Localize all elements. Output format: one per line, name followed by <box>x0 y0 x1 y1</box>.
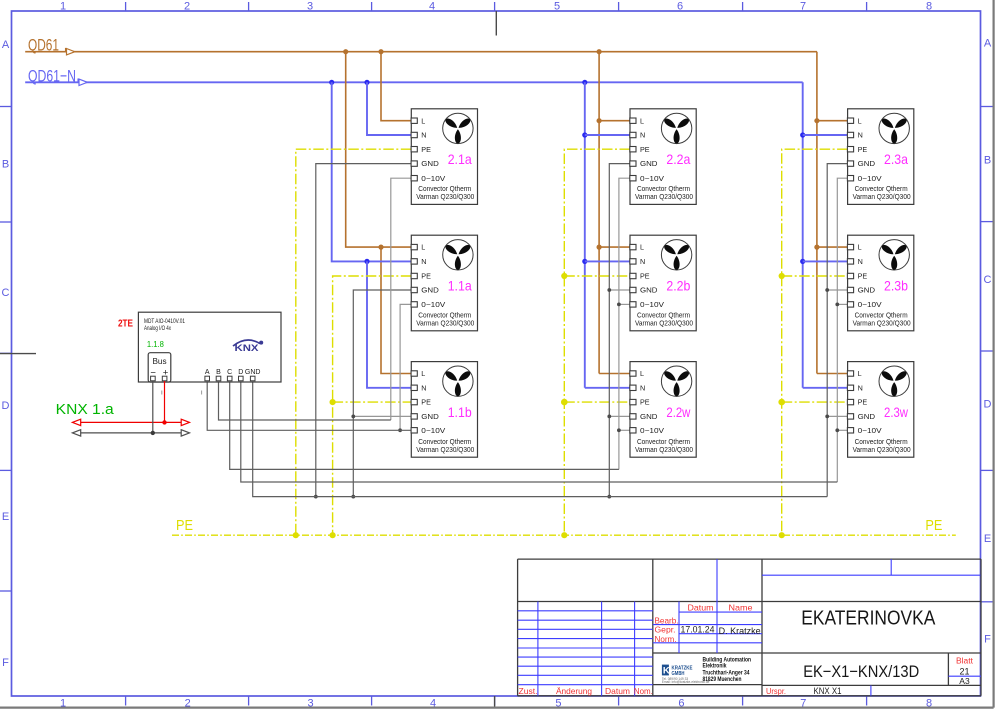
svg-text:GND: GND <box>245 369 261 376</box>
wire L riser column 2 (QD61 drop) <box>597 49 631 373</box>
svg-text:PE: PE <box>858 398 868 407</box>
svg-text:2.2b: 2.2b <box>666 278 690 294</box>
arrow QD61 <box>66 48 75 55</box>
svg-text:Varman Q230/Q300: Varman Q230/Q300 <box>416 447 474 454</box>
svg-text:2.3a: 2.3a <box>884 151 908 167</box>
wire N feed 1.1a (QD61-N drop) <box>329 80 411 262</box>
svg-text:Nom.: Nom. <box>634 686 653 696</box>
svg-text:Bus: Bus <box>152 357 166 366</box>
svg-text:PE: PE <box>421 272 431 281</box>
svg-text:Convector Qtherm: Convector Qtherm <box>637 439 690 446</box>
svg-text:Convector Qtherm: Convector Qtherm <box>855 313 908 320</box>
svg-text:C: C <box>2 287 10 299</box>
wire 0-10V 2.1a (output B) <box>391 178 412 420</box>
svg-text:PE: PE <box>858 272 868 281</box>
svg-text:N: N <box>640 383 645 392</box>
svg-text:Convector Qtherm: Convector Qtherm <box>855 186 908 193</box>
svg-text:E: E <box>984 533 991 545</box>
svg-text:N: N <box>640 131 645 140</box>
svg-text:GND: GND <box>640 286 658 295</box>
svg-text:L: L <box>858 116 862 125</box>
wire GND 2.1a riser <box>314 164 411 499</box>
svg-text:L: L <box>858 243 862 252</box>
svg-text:D: D <box>984 399 992 411</box>
svg-text:D: D <box>238 369 243 376</box>
svg-text:0−10V: 0−10V <box>858 174 882 183</box>
pins A B C D GND <box>205 369 261 381</box>
svg-text:L: L <box>858 369 862 378</box>
svg-text:A: A <box>205 369 210 376</box>
svg-text:PE: PE <box>421 398 431 407</box>
svg-text:Varman Q230/Q300: Varman Q230/Q300 <box>853 194 911 201</box>
wire output D (MDT to column 3 0-10V) <box>241 381 838 482</box>
svg-text:5: 5 <box>554 1 560 13</box>
svg-text:1.1b: 1.1b <box>448 404 472 420</box>
svg-text:Varman Q230/Q300: Varman Q230/Q300 <box>635 320 693 327</box>
svg-text:N: N <box>858 131 863 140</box>
svg-text:Norm.: Norm. <box>655 634 677 644</box>
svg-text:Convector Qtherm: Convector Qtherm <box>418 186 471 193</box>
wire 0-10V riser column 3 <box>835 178 847 482</box>
svg-text:A: A <box>984 38 992 50</box>
svg-text:Convector Qtherm: Convector Qtherm <box>418 439 471 446</box>
wire QD61 bus <box>25 51 817 53</box>
convector unit 2.2b <box>630 235 696 331</box>
svg-text:L: L <box>421 116 425 125</box>
wire KNX bus plus (red) <box>72 381 189 426</box>
svg-text:0−10V: 0−10V <box>858 300 882 309</box>
svg-text:N: N <box>421 131 426 140</box>
wire PE riser column 2 <box>561 149 630 538</box>
wire PE riser column 3 <box>778 149 847 538</box>
svg-text:3: 3 <box>307 1 313 13</box>
svg-text:L: L <box>421 243 425 252</box>
svg-text:Convector Qtherm: Convector Qtherm <box>637 186 690 193</box>
svg-text:Varman Q230/Q300: Varman Q230/Q300 <box>635 194 693 201</box>
svg-text:Varman Q230/Q300: Varman Q230/Q300 <box>416 194 474 201</box>
svg-text:PE: PE <box>858 145 868 154</box>
convector unit 2.3b <box>847 235 913 331</box>
svg-text:Datum: Datum <box>605 686 630 696</box>
svg-text:0−10V: 0−10V <box>421 300 445 309</box>
wire GND bus (MDT to columns) <box>253 381 828 497</box>
svg-text:6: 6 <box>677 1 683 13</box>
svg-text:PE: PE <box>640 398 650 407</box>
svg-text:PE: PE <box>640 272 650 281</box>
svg-text:D: D <box>2 400 10 412</box>
device U1 MDT AIO-0410V.01 analog output module <box>138 312 281 382</box>
wire N riser column 2 (QD61-N drop) <box>582 80 630 388</box>
wire N feed 1.1b (branch) <box>364 259 411 388</box>
svg-text:C: C <box>227 369 232 376</box>
svg-text:GND: GND <box>858 412 876 421</box>
wire PE 2.1a <box>293 149 412 538</box>
svg-text:Änderung: Änderung <box>556 686 592 696</box>
wire 0-10V 1.1a (branch of output A) <box>398 304 411 432</box>
wire L feed 1.1a (QD61 drop) <box>343 49 411 247</box>
Bus terminal block <box>148 353 171 382</box>
wire N riser column 3 (QD61-N drop) <box>800 82 847 388</box>
svg-text:N: N <box>421 383 426 392</box>
svg-text:L: L <box>640 243 644 252</box>
wire KNX bus minus (dark) <box>72 381 189 436</box>
svg-text:PE: PE <box>925 517 942 534</box>
svg-text:2.2w: 2.2w <box>666 404 691 420</box>
svg-text:Zust.: Zust. <box>519 686 538 696</box>
svg-text:N: N <box>858 257 863 266</box>
convector unit 1.1b <box>411 362 477 458</box>
svg-text:A3: A3 <box>959 676 970 686</box>
svg-text:D. Kratzke: D. Kratzke <box>719 626 761 636</box>
svg-text:Analog I/O 4x: Analog I/O 4x <box>144 325 171 332</box>
svg-text:C: C <box>984 274 992 286</box>
svg-text:4: 4 <box>429 1 435 13</box>
svg-text:2: 2 <box>184 1 190 13</box>
svg-text:GND: GND <box>421 412 439 421</box>
svg-text:7: 7 <box>800 1 806 13</box>
svg-text:GND: GND <box>640 159 658 168</box>
svg-text:GND: GND <box>640 412 658 421</box>
svg-text:E: E <box>2 511 9 523</box>
svg-text:2.1a: 2.1a <box>448 151 472 167</box>
title block <box>518 559 981 696</box>
svg-text:KNX 1.a: KNX 1.a <box>56 401 115 418</box>
svg-text:0−10V: 0−10V <box>421 426 445 435</box>
svg-text:Convector Qtherm: Convector Qtherm <box>855 439 908 446</box>
wire GND 1.1a/1.1b riser <box>351 290 411 499</box>
wire output A (MDT to 1.1b 0-10V) <box>207 381 411 430</box>
svg-text:2.3b: 2.3b <box>884 278 908 294</box>
svg-text:Name: Name <box>729 602 753 612</box>
reference marks <box>162 391 202 395</box>
svg-text:L: L <box>640 369 644 378</box>
svg-text:Convector Qtherm: Convector Qtherm <box>637 313 690 320</box>
svg-text:1: 1 <box>60 1 66 13</box>
KNX logo <box>233 340 263 353</box>
convector unit 2.2a <box>630 109 696 205</box>
svg-text:Datum: Datum <box>688 602 714 612</box>
svg-text:Blatt: Blatt <box>956 657 974 666</box>
svg-text:Varman Q230/Q300: Varman Q230/Q300 <box>853 320 911 327</box>
wire output B (MDT to 2.1a 0-10V) <box>219 381 391 420</box>
svg-text:0−10V: 0−10V <box>640 174 664 183</box>
convector unit 2.1a <box>411 109 477 205</box>
convector unit 2.3a <box>847 109 913 205</box>
svg-text:0−10V: 0−10V <box>421 174 445 183</box>
convector unit 1.1a <box>411 235 477 331</box>
arrow QD61-N <box>78 79 87 86</box>
svg-text:EKATERINOVKA: EKATERINOVKA <box>801 606 935 629</box>
svg-text:2.3w: 2.3w <box>884 404 909 420</box>
convector unit 2.2w <box>630 362 696 458</box>
svg-text:Varman Q230/Q300: Varman Q230/Q300 <box>416 320 474 327</box>
svg-text:Urspr.: Urspr. <box>766 686 786 696</box>
svg-text:KNX X1: KNX X1 <box>814 686 842 696</box>
wire PE 1.1a/1.1b <box>330 276 412 538</box>
svg-text:GND: GND <box>421 286 439 295</box>
convector unit 2.3w <box>847 362 913 458</box>
svg-text:1.1a: 1.1a <box>448 278 472 294</box>
svg-text:0−10V: 0−10V <box>858 426 882 435</box>
svg-text:MDT AIO-0410V.01: MDT AIO-0410V.01 <box>144 318 185 325</box>
svg-text:21: 21 <box>959 666 969 676</box>
wire 0-10V riser column 2 <box>617 178 630 469</box>
svg-text:GND: GND <box>421 159 439 168</box>
svg-text:0−10V: 0−10V <box>640 300 664 309</box>
svg-text:N: N <box>858 383 863 392</box>
svg-text:PE: PE <box>176 517 193 534</box>
svg-text:GND: GND <box>858 286 876 295</box>
svg-text:N: N <box>421 257 426 266</box>
wire L riser column 3 (QD61 drop) <box>814 52 847 374</box>
svg-text:B: B <box>984 154 991 166</box>
svg-text:2.2a: 2.2a <box>666 151 690 167</box>
wire GND riser column 2 <box>607 164 630 499</box>
svg-text:EK−X1−KNX/13D: EK−X1−KNX/13D <box>803 662 919 681</box>
svg-text:GND: GND <box>858 159 876 168</box>
svg-text:Varman Q230/Q300: Varman Q230/Q300 <box>635 447 693 454</box>
svg-text:A: A <box>2 39 10 51</box>
svg-text:Convector Qtherm: Convector Qtherm <box>418 313 471 320</box>
wire QD61-N bus <box>25 81 803 83</box>
wire output C (MDT to column 2 0-10V) <box>230 381 619 469</box>
svg-text:17.01.24: 17.01.24 <box>681 625 715 636</box>
svg-text:PE: PE <box>640 145 650 154</box>
svg-text:81829 Muenchen: 81829 Muenchen <box>703 676 742 683</box>
title block labels <box>519 602 974 696</box>
svg-text:1.1.8: 1.1.8 <box>147 339 164 349</box>
svg-text:B: B <box>216 369 221 376</box>
wire PE bus <box>172 534 956 536</box>
svg-text:2TE: 2TE <box>118 318 133 330</box>
wire L feed 1.1b (branch) <box>378 245 411 374</box>
Kratzke GmbH logo <box>662 657 751 684</box>
svg-text:0−10V: 0−10V <box>640 426 664 435</box>
svg-text:Varman Q230/Q300: Varman Q230/Q300 <box>853 447 911 454</box>
svg-text:F: F <box>2 657 9 669</box>
svg-text:KNX: KNX <box>235 343 259 353</box>
svg-text:B: B <box>2 159 9 171</box>
wire N feed 2.1a (QD61-N drop) <box>364 80 411 135</box>
svg-text:PE: PE <box>421 145 431 154</box>
svg-text:L: L <box>640 116 644 125</box>
svg-text:K: K <box>663 666 670 677</box>
svg-text:8: 8 <box>926 1 932 13</box>
wire GND riser column 3 <box>825 164 847 497</box>
svg-text:L: L <box>421 369 425 378</box>
svg-text:N: N <box>640 257 645 266</box>
wire L feed 2.1a (QD61 drop) <box>378 49 411 121</box>
title block values <box>681 606 970 696</box>
svg-text:F: F <box>984 633 991 645</box>
